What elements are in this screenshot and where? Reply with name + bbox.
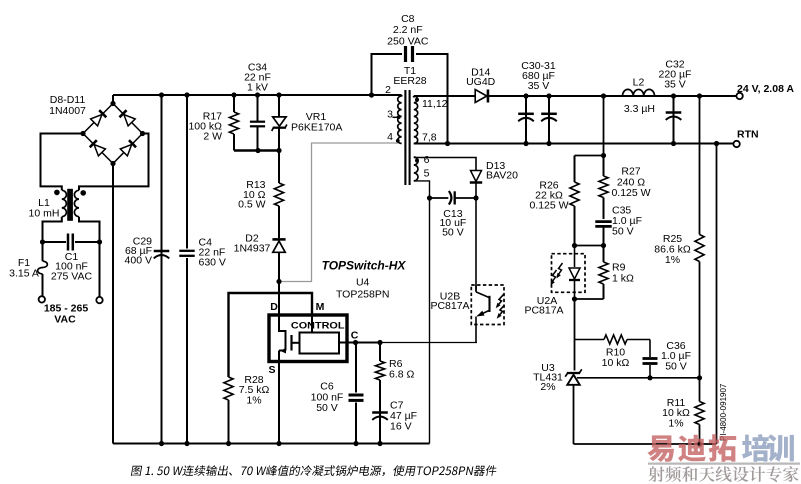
watermark underline <box>648 463 800 465</box>
svg-text:50 V: 50 V <box>665 360 687 372</box>
diode D14 UG4D <box>475 90 487 103</box>
svg-text:TOPSwitch-HX: TOPSwitch-HX <box>322 258 407 272</box>
capacitor C34 22 nF 1 kV <box>257 95 259 121</box>
op-amp U4 TOP258PN outer box <box>269 315 347 362</box>
T1 primary winding <box>398 96 402 144</box>
resistor R25 86.6 kOhm <box>699 96 701 235</box>
resistor R26 22 kOhm <box>574 156 576 183</box>
svg-text:10 kΩ: 10 kΩ <box>602 357 630 369</box>
diode U2A LED <box>574 246 576 268</box>
svg-text:1 kV: 1 kV <box>247 82 268 94</box>
svg-text:L2: L2 <box>633 77 645 89</box>
wire secondary output <box>414 95 476 97</box>
svg-text:6.8 Ω: 6.8 Ω <box>389 369 415 381</box>
svg-text:1N4007: 1N4007 <box>49 105 86 117</box>
svg-text:VAC: VAC <box>54 314 76 326</box>
node drain junction <box>276 279 281 284</box>
diode D13 BAV20 <box>471 171 482 182</box>
capacitor C36 1.0 uF <box>649 340 651 358</box>
capacitor C4 22 nF 630 V <box>186 95 188 249</box>
capacitor C7 47 uF <box>379 411 381 444</box>
U4 control block rect <box>300 333 340 354</box>
svg-text:35 V: 35 V <box>664 78 686 90</box>
U2B light arrows <box>497 295 503 307</box>
wire bridge right AC lead <box>79 134 149 191</box>
svg-text:CONTROL: CONTROL <box>291 320 345 331</box>
wire S pin to ground <box>278 362 280 444</box>
svg-text:1 kΩ: 1 kΩ <box>612 272 634 284</box>
terminal RTN <box>733 141 739 147</box>
svg-text:3: 3 <box>387 109 393 121</box>
capacitor C8 2.2 nF <box>372 54 403 95</box>
shunt U3 TL431 <box>567 372 580 374</box>
svg-text:3.3 µH: 3.3 µH <box>624 103 655 115</box>
capacitor C6 100 nF <box>355 343 357 393</box>
svg-text:2: 2 <box>385 84 391 96</box>
svg-text:0.125 W: 0.125 W <box>529 200 568 212</box>
node T1 pin4 phase dot <box>396 139 400 143</box>
resistor R13 10 Ohm <box>278 151 280 184</box>
svg-text:10 mH: 10 mH <box>29 208 60 220</box>
capacitor C29 68 uF 400 V <box>161 95 163 444</box>
T1 bias winding <box>414 157 418 181</box>
opto U2A dashed box <box>552 254 586 293</box>
wire bridge bottom B- <box>112 164 114 444</box>
resistor R10 10 kOhm <box>575 339 605 341</box>
svg-text:1N4937: 1N4937 <box>234 243 271 255</box>
svg-text:C8: C8 <box>401 13 415 25</box>
terminal 24V output <box>736 93 742 99</box>
svg-text:S: S <box>268 364 275 376</box>
U2A light arrows <box>557 263 563 277</box>
svg-text:PC817A: PC817A <box>430 300 469 312</box>
svg-text:0.125 W: 0.125 W <box>611 187 650 199</box>
opto U2B PC817A dashed box <box>471 285 504 325</box>
svg-text:630 V: 630 V <box>199 257 226 269</box>
svg-text:1%: 1% <box>668 417 683 429</box>
wire U2B collector <box>475 198 477 291</box>
svg-text:3.15 A: 3.15 A <box>9 267 39 279</box>
T1 pin3 stub <box>393 116 400 118</box>
wire U4 M pin internal <box>311 315 313 333</box>
svg-text:M: M <box>316 301 325 313</box>
watermark logo red part <box>647 434 736 462</box>
wire clamp bottom bar <box>234 149 279 151</box>
wire bridge top stub <box>112 95 114 104</box>
wire AC neutral lead <box>99 242 101 297</box>
transistor U2B phototransistor <box>476 292 489 298</box>
T1 secondary winding <box>414 96 418 144</box>
svg-text:11,12: 11,12 <box>422 98 448 110</box>
resistor R6 6.8 Ohm <box>379 343 381 362</box>
svg-text:16 V: 16 V <box>390 420 412 432</box>
resistor R28 7.5 kOhm <box>224 377 233 400</box>
wire secondary return <box>414 143 733 145</box>
svg-text:D: D <box>270 301 278 313</box>
svg-text:7,8: 7,8 <box>422 131 437 143</box>
transistor U4 internal MOSFET <box>279 315 286 351</box>
terminal AC line <box>39 296 45 302</box>
svg-text:RTN: RTN <box>737 129 759 141</box>
resistor R17 100 kOhm <box>233 95 235 112</box>
wire top rail B+ <box>113 94 402 96</box>
inductor L1 10 mH common-mode choke <box>67 189 73 221</box>
transformer T1 core <box>404 90 406 185</box>
watermark logo blue part <box>742 434 794 462</box>
wire R26 branch <box>575 155 604 157</box>
svg-text:EER28: EER28 <box>393 75 426 87</box>
caption figure 1 <box>131 465 498 476</box>
svg-text:2 W: 2 W <box>203 131 222 143</box>
wire primary ground rail <box>113 443 430 445</box>
svg-text:2%: 2% <box>540 381 555 393</box>
wire T1 pin5 lead <box>414 181 430 444</box>
svg-text:P6KE170A: P6KE170A <box>291 122 342 134</box>
zener VR1 P6KE170A <box>278 95 280 117</box>
svg-text:TOP258PN: TOP258PN <box>336 289 390 301</box>
svg-text:35 V: 35 V <box>528 80 550 92</box>
svg-text:U4: U4 <box>356 277 370 289</box>
svg-text:250 VAC: 250 VAC <box>387 35 429 47</box>
wire bridge left AC lead <box>41 134 84 191</box>
svg-text:275 VAC: 275 VAC <box>51 270 93 282</box>
svg-text:50 V: 50 V <box>316 402 338 414</box>
wire secondary ground column <box>716 144 718 445</box>
capacitor C31 680 uF <box>548 96 550 144</box>
diode D2 1N4937 <box>272 238 285 241</box>
svg-text:C: C <box>351 329 359 341</box>
svg-text:1%: 1% <box>246 394 261 406</box>
wire drain to TOPSwitch D pin <box>278 282 280 316</box>
watermark tagline <box>649 466 799 482</box>
svg-text:24 V, 2.08 A: 24 V, 2.08 A <box>737 83 794 95</box>
terminal AC neutral <box>96 297 102 303</box>
node C13 left junction <box>427 195 432 200</box>
resistor R11 10 kOhm <box>699 378 701 402</box>
svg-text:400 V: 400 V <box>125 255 152 267</box>
wire secondary ground rail <box>574 443 717 445</box>
wire T1 pin6 lead <box>414 158 476 171</box>
rectifier bridge D8-D11 1N4007 <box>83 104 113 134</box>
wire L1 right bottom lead <box>79 217 100 242</box>
svg-text:0.5 W: 0.5 W <box>238 199 266 211</box>
svg-text:1%: 1% <box>665 254 680 266</box>
capacitor C13 10 uF <box>430 197 449 199</box>
capacitor C1 100 nF X2 <box>43 241 67 243</box>
svg-text:50 V: 50 V <box>612 226 634 238</box>
svg-text:UG4D: UG4D <box>466 76 496 88</box>
svg-text:PI-4800-091907: PI-4800-091907 <box>719 383 728 441</box>
svg-text:2.2 nF: 2.2 nF <box>393 24 423 36</box>
svg-text:4: 4 <box>387 131 393 143</box>
fuse F1 3.15 A <box>42 242 44 261</box>
svg-text:6: 6 <box>424 154 430 166</box>
resistor R9 1 kOhm <box>603 246 605 263</box>
resistor R27 240 Ohm <box>603 156 605 177</box>
wire anode junction <box>575 245 604 247</box>
wire M pin bracket <box>229 293 313 377</box>
svg-text:PC817A: PC817A <box>524 305 563 317</box>
wire R9 bottom junction <box>575 298 604 300</box>
svg-text:5: 5 <box>424 167 430 179</box>
wire C pin line <box>339 342 380 344</box>
capacitor C35 1.0 uF <box>595 220 611 223</box>
svg-text:BAV20: BAV20 <box>486 169 518 181</box>
wire output sense drop <box>603 96 605 156</box>
capacitor C30 680 uF <box>525 96 527 144</box>
wire TL431 ref line <box>577 377 700 379</box>
wire L1 left bottom lead <box>43 217 62 242</box>
svg-text:50 V: 50 V <box>442 226 464 238</box>
wire drain route to T1 pin 4 <box>279 143 402 282</box>
capacitor C32 220 uF <box>673 96 675 144</box>
wire to TL431 <box>574 299 576 371</box>
inductor L2 3.3 uH <box>623 89 655 96</box>
